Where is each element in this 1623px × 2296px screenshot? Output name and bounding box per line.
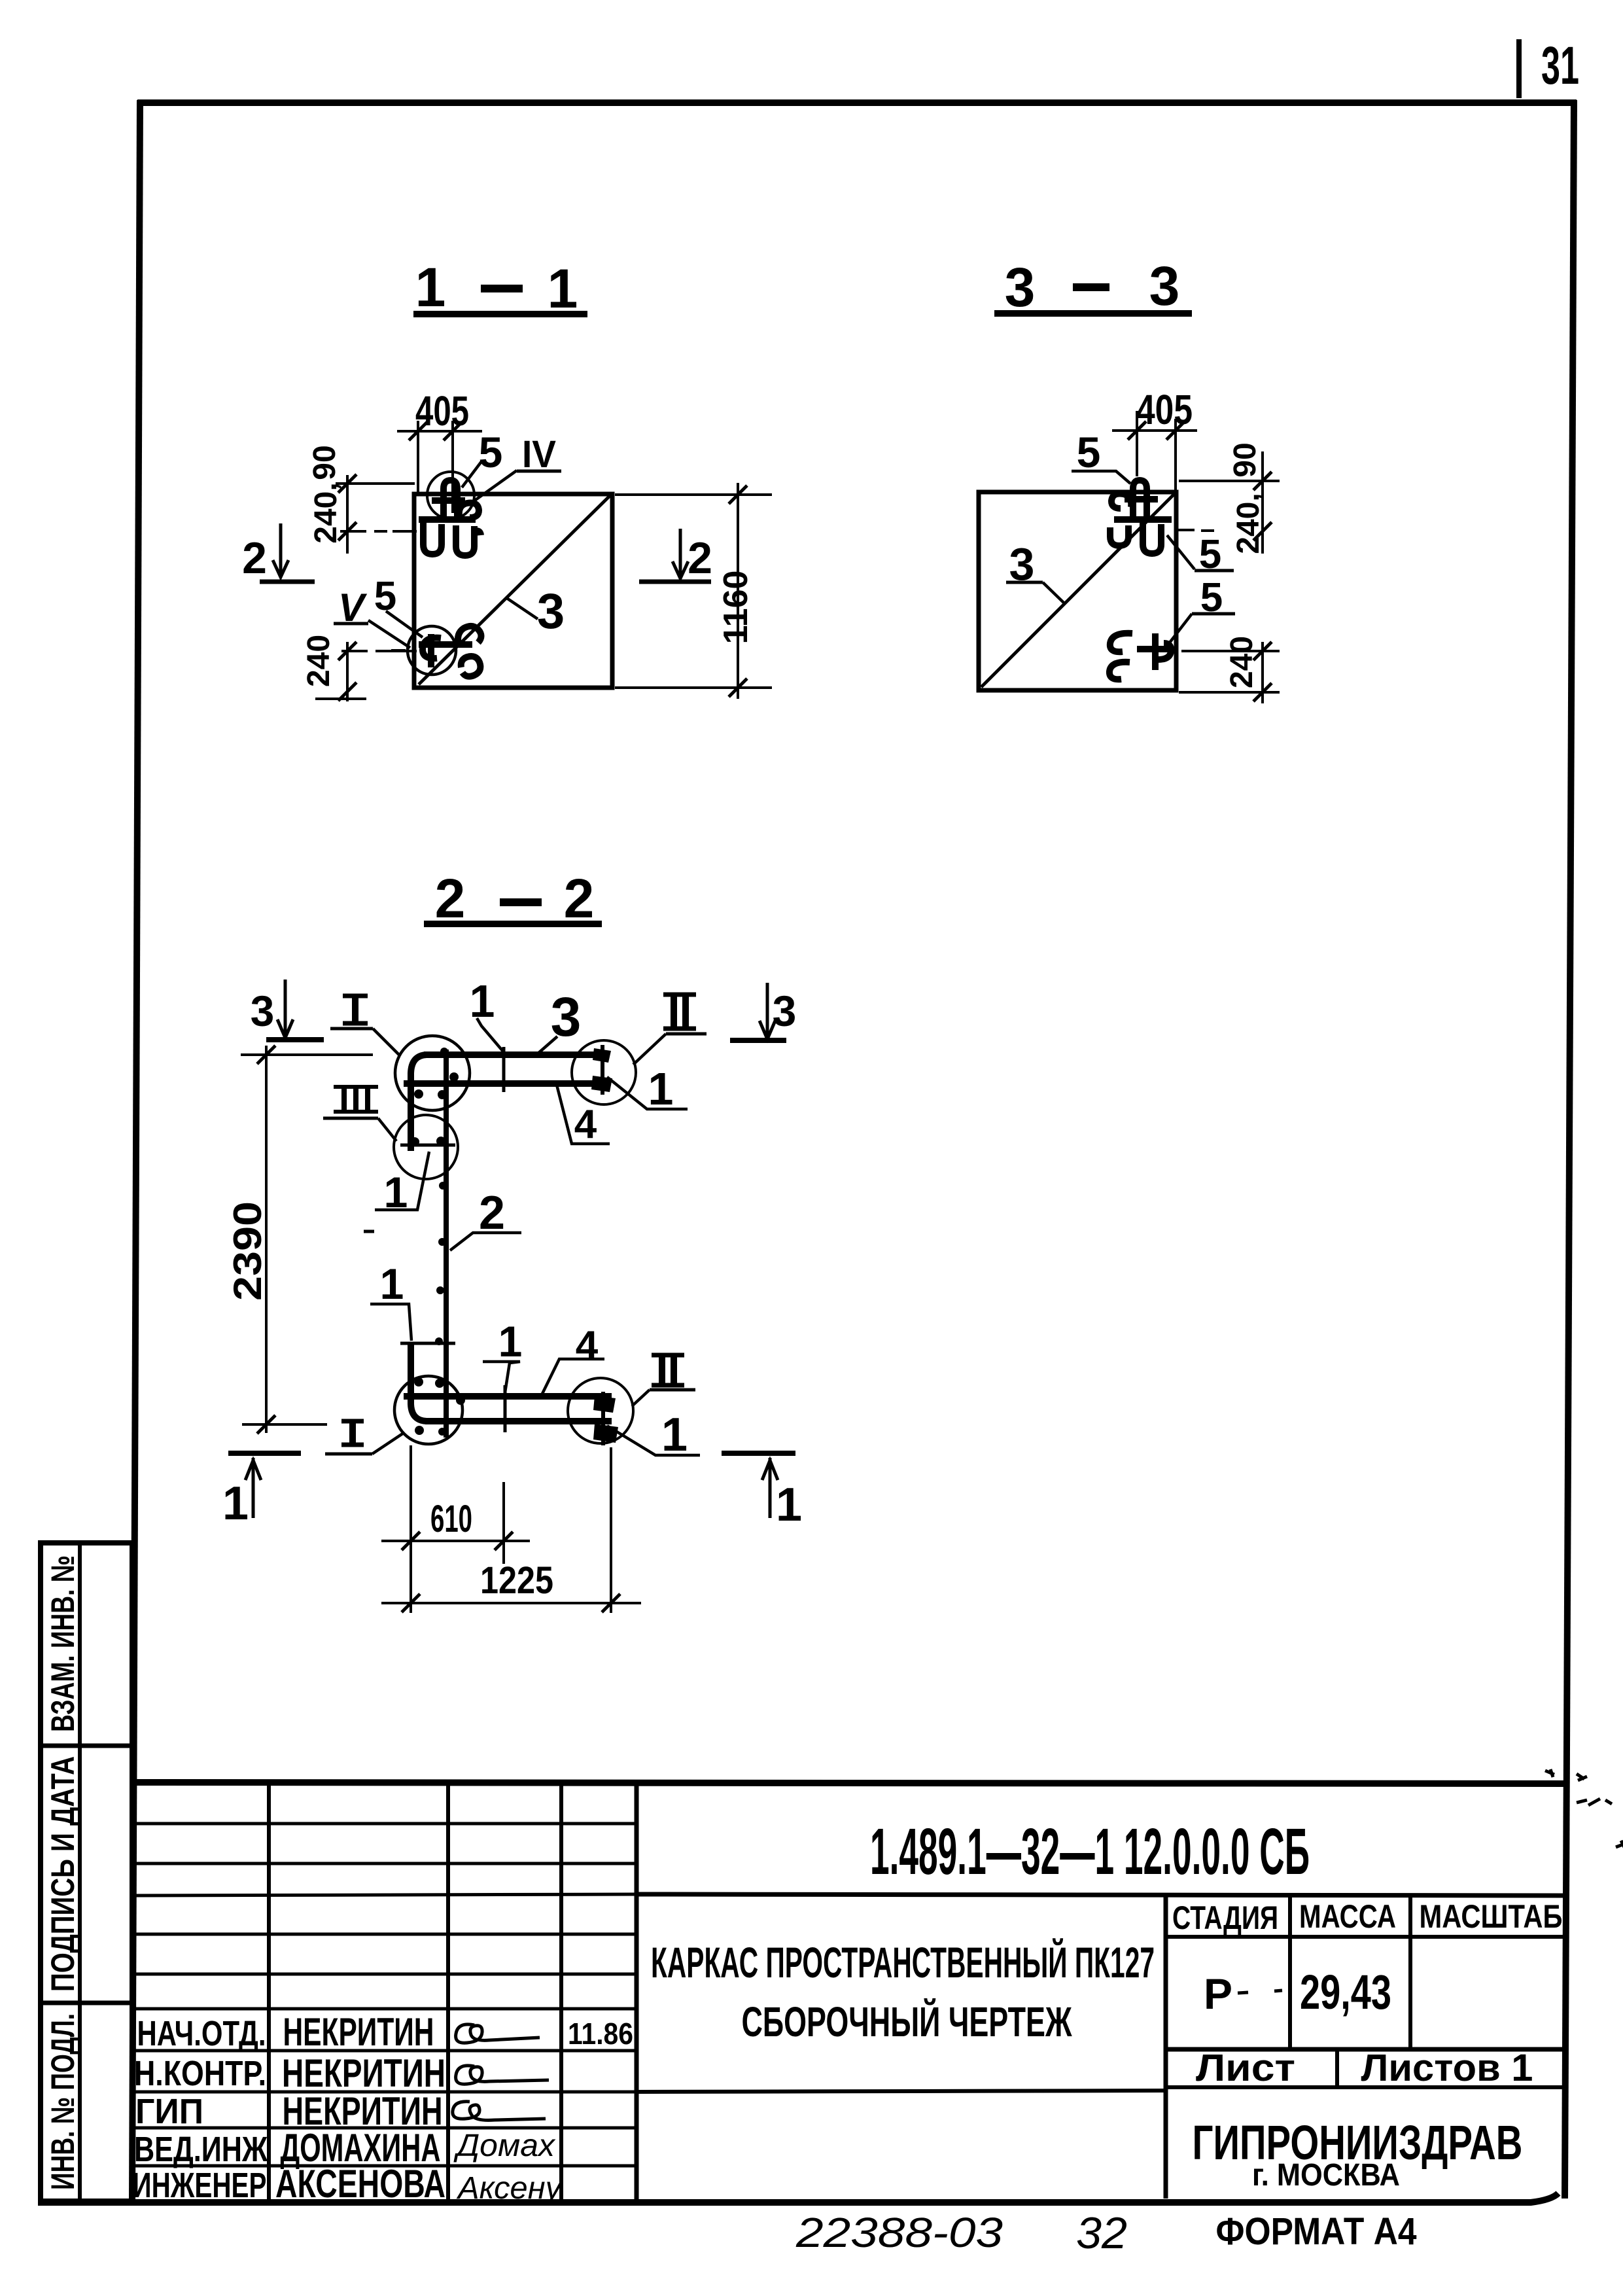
dim 405 line [397, 430, 482, 433]
svg-text:НАЧ.ОТД.: НАЧ.ОТД. [137, 2014, 266, 2053]
svg-text:КАРКАС ПРОСТРАНСТВЕННЫЙ ПК127: КАРКАС ПРОСТРАНСТВЕННЫЙ ПК127 [651, 1937, 1155, 1987]
leader 5 mid [1167, 535, 1195, 569]
svg-text:22388-03: 22388-03 [795, 2209, 1003, 2256]
right dim structure bottom: vertical [1261, 642, 1264, 703]
right dim structure: vertical line [1261, 451, 1264, 554]
svg-text:2: 2 [688, 533, 712, 583]
hook cluster bottom: upper right hook [458, 626, 481, 645]
dim 1225 ticks [402, 1594, 420, 1612]
hook cluster bottom 3-3: right hook [1158, 643, 1171, 660]
tick on top bar mid [502, 1047, 506, 1092]
right tick at 995 [1253, 642, 1272, 660]
section mark 1 bottom left [222, 1453, 301, 1530]
hook cluster bottom 3-3: vertical [1152, 633, 1159, 670]
ink specks near right edge [1545, 1769, 1623, 1848]
right dim line y735 [1179, 480, 1280, 482]
right dim line y995 [1181, 650, 1280, 652]
svg-text:1.489.1—32—1 12.0.0.0 СБ: 1.489.1—32—1 12.0.0.0 СБ [870, 1815, 1310, 1888]
svg-text:Аксену: Аксену [456, 2171, 563, 2206]
label II bottom right [632, 1355, 695, 1406]
hook cluster bottom 3-3: crossbar [1137, 646, 1174, 652]
dim 610 line [381, 1540, 530, 1542]
panel diagonal bar 3 [981, 494, 1174, 687]
panel outline 1-1 [414, 494, 612, 688]
svg-text:1160: 1160 [717, 571, 755, 645]
label 5 mid underline [1195, 569, 1234, 573]
leader 5 near V [386, 611, 423, 637]
svg-text:АКСЕНОВА: АКСЕНОВА [275, 2162, 445, 2206]
left tick at 739 [338, 474, 357, 493]
svg-text:5: 5 [479, 428, 503, 476]
label 4 bottom underline and leader [542, 1359, 604, 1395]
svg-text:4: 4 [576, 1323, 599, 1368]
label 5 low underline [1192, 612, 1235, 616]
left dim structure top: vertical line [346, 475, 349, 554]
svg-text:IV: IV [522, 433, 556, 476]
right tick at 735 [1253, 472, 1272, 490]
svg-text:32: 32 [1076, 2208, 1127, 2258]
svg-text:Листов 1: Листов 1 [1361, 2047, 1533, 2089]
label III [323, 1087, 396, 1141]
svg-text:90: 90 [1228, 442, 1263, 477]
divider under PODPIS box [41, 2001, 132, 2005]
tick on bottom bar right [601, 1392, 605, 1445]
left dim line y739 [336, 482, 415, 485]
svg-text:31: 31 [1541, 36, 1579, 96]
detail circle II bottom [568, 1378, 633, 1443]
section mark 2 left [242, 523, 315, 583]
list row top line [1166, 2047, 1565, 2052]
svg-text:3: 3 [773, 987, 797, 1035]
right dim line y1058 [1179, 691, 1280, 694]
svg-text:НЕКРИТИН: НЕКРИТИН [282, 2051, 445, 2095]
svg-text:4: 4 [574, 1102, 597, 1147]
section title 1-1 [413, 256, 587, 319]
svg-text:1: 1 [380, 1260, 404, 1308]
svg-text:610: 610 [430, 1498, 472, 1540]
svg-text:1: 1 [470, 976, 495, 1027]
leg tick bottom [400, 1342, 455, 1345]
detail circle I bottom [394, 1376, 462, 1444]
tick 1160 bottom [729, 679, 747, 697]
row lines left section [132, 1822, 637, 1826]
svg-text:ВЗАМ. ИНВ. №: ВЗАМ. ИНВ. № [44, 1555, 81, 1732]
label 4 underline and leader [557, 1085, 610, 1144]
hook cluster bottom: crossbar [419, 641, 472, 648]
svg-text:90: 90 [307, 445, 342, 480]
svg-text:405: 405 [415, 387, 469, 434]
hook cluster top 3-3: left lower hook [1110, 525, 1128, 546]
designation cell bottom line [637, 1894, 1565, 1896]
svg-text:НЕКРИТИН: НЕКРИТИН [283, 2010, 434, 2054]
title block top border [132, 1782, 1565, 1784]
left dash-dot axis y812 [340, 530, 417, 533]
bottom bar lower line (bar 3) [425, 1418, 612, 1424]
svg-text:г. МОСКВА: г. МОСКВА [1252, 2158, 1400, 2193]
label I top left [330, 996, 400, 1055]
label IV underline [517, 470, 561, 473]
right tick at 1058 [1253, 683, 1272, 701]
section mark 3 top left [251, 980, 324, 1040]
stadija column left line [1164, 1894, 1168, 2199]
list row bottom line [1166, 2085, 1565, 2089]
hook cluster top 3-3: lower bar [1114, 516, 1172, 523]
dashes after P [1238, 1992, 1248, 1993]
svg-text:Р: Р [1204, 1969, 1232, 2018]
dim 2390 line [265, 1046, 268, 1433]
svg-text:3: 3 [251, 987, 275, 1035]
section title 2-2 [424, 868, 602, 929]
svg-text:3: 3 [1149, 255, 1180, 317]
stadija/massa divider [1288, 1894, 1292, 2049]
svg-text:ИНВ. № ПОДЛ.: ИНВ. № ПОДЛ. [44, 2013, 81, 2190]
label 2 underline and leader [450, 1233, 521, 1250]
leader 3 top [536, 1036, 557, 1055]
detail circle I top [395, 1036, 470, 1110]
hook cluster bottom: vertical [428, 634, 434, 667]
svg-text:МАССА: МАССА [1299, 1898, 1396, 1935]
svg-text:1: 1 [776, 1479, 802, 1531]
label 1 bottom underline and leader [483, 1362, 520, 1392]
dim 2390 bottom extension [242, 1423, 327, 1426]
svg-text:МАСШТАБ: МАСШТАБ [1420, 1898, 1563, 1935]
column line x973 [635, 1782, 639, 2201]
section mark 1 bottom right [722, 1453, 802, 1531]
hook cluster top: left U [423, 523, 442, 554]
dim 1225 line [381, 1602, 641, 1604]
leader IV [474, 470, 517, 501]
svg-text:11.86: 11.86 [568, 2017, 633, 2051]
svg-text:5: 5 [1077, 428, 1101, 476]
svg-text:2: 2 [435, 868, 466, 929]
weld blobs bottom right [593, 1396, 618, 1443]
svg-text:2: 2 [242, 533, 267, 583]
divider under VZAM box [41, 1744, 132, 1748]
bottom bar left bend and leg [411, 1343, 427, 1421]
signature 2 [456, 2066, 549, 2084]
detail circle IV [427, 472, 474, 519]
leader 1 top center [477, 1018, 504, 1052]
sheet number tick [1516, 39, 1522, 98]
svg-text:240,: 240, [1231, 493, 1266, 554]
svg-text:ФОРМАТ А4: ФОРМАТ А4 [1216, 2210, 1417, 2253]
dim 405 ticks [409, 422, 427, 440]
dim 1225 right extension [610, 1447, 612, 1613]
left line y1068 [315, 698, 366, 700]
section mark 3 top right [730, 983, 796, 1040]
svg-text:ПОДПИСЬ И ДАТА: ПОДПИСЬ И ДАТА [44, 1756, 81, 1992]
label I bottom left [325, 1421, 404, 1454]
top bar lower line (bar 4) [404, 1080, 603, 1087]
svg-text:ГИП: ГИП [135, 2092, 203, 2131]
tick on bottom bar mid [504, 1385, 507, 1432]
svg-text:Лист: Лист [1196, 2047, 1295, 2089]
svg-text:29,43: 29,43 [1300, 1965, 1391, 2019]
label 3 underline [1006, 581, 1043, 584]
frame left border [132, 100, 140, 2202]
hook cluster top 3-3: hairpin [1133, 480, 1147, 520]
leader 5 top [462, 461, 482, 487]
frame top border [137, 99, 1577, 106]
bottom bar upper line (bar 4) [404, 1393, 612, 1400]
svg-text:405: 405 [1136, 386, 1193, 433]
detail circle III [394, 1115, 458, 1179]
svg-text:3: 3 [537, 584, 565, 639]
leader 5 low [1170, 614, 1192, 643]
column line x858 [559, 1782, 563, 2201]
left dim structure bottom: vertical line [346, 642, 349, 701]
label 1 right underline and leader [607, 1077, 688, 1109]
leg tick top [400, 1144, 455, 1147]
left tick at 812 [338, 522, 357, 540]
svg-text:Домах: Домах [453, 2128, 556, 2163]
hook cluster top: right hook [459, 503, 479, 518]
label 1 low underline and leader [370, 1304, 411, 1341]
rebar dots top area [410, 1048, 465, 1436]
dashed axis bottom hooks [378, 650, 406, 651]
panel diagonal bar 3 [419, 495, 610, 684]
svg-text:1: 1 [548, 258, 578, 319]
small dash left of bar 2 [364, 1230, 374, 1233]
leader 3 [506, 597, 538, 619]
label V underline [334, 622, 368, 626]
signature 1 [456, 2024, 540, 2043]
section title 3-3 [994, 255, 1192, 318]
svg-text:Н.КОНТР.: Н.КОНТР. [134, 2054, 266, 2093]
svg-text:240: 240 [302, 635, 336, 687]
hook cluster top 3-3: left C hook [1111, 493, 1131, 508]
svg-text:ИНЖЕНЕР: ИНЖЕНЕР [133, 2166, 267, 2205]
dim 405 extension lines [1136, 411, 1138, 476]
tick on top bar right [601, 1045, 604, 1095]
svg-text:1: 1 [498, 1317, 523, 1366]
label II top right [633, 995, 707, 1065]
detail circle V [408, 626, 456, 675]
list/listov divider [1335, 2049, 1339, 2087]
frame bottom border [38, 2193, 1558, 2202]
massa/masshtab divider [1408, 1894, 1412, 2049]
hook cluster top: crossbar [432, 497, 465, 504]
svg-text:ВЕД.ИНЖ: ВЕД.ИНЖ [134, 2130, 268, 2169]
hook cluster top: hairpin [444, 480, 457, 520]
svg-text:2390: 2390 [226, 1201, 270, 1301]
hook cluster bottom 3-3: upper left C [1110, 633, 1132, 652]
section mark 2 right [639, 529, 712, 583]
svg-text:240: 240 [1225, 636, 1259, 688]
dim 610 mid extension [502, 1482, 505, 1564]
hook cluster top 3-3: center U [1143, 523, 1161, 554]
leader V [368, 620, 410, 648]
top bar upper line (bar 3) [424, 1051, 603, 1058]
svg-text:3: 3 [1005, 256, 1036, 318]
dim 405 extension lines [417, 421, 419, 492]
weld blobs top right [591, 1048, 612, 1092]
svg-text:1: 1 [661, 1409, 688, 1461]
label 1 mid underline and leader [375, 1152, 429, 1210]
right tick at 812 [1253, 522, 1272, 540]
dim 2390 top extension [241, 1053, 373, 1056]
right dash-dot axis y812 [1178, 530, 1214, 531]
hook cluster bottom: lower right hook [461, 656, 481, 677]
leader 3 [1043, 582, 1064, 603]
name cell bottom line [637, 2091, 1166, 2092]
panel outline 3-3 [979, 492, 1176, 690]
signature 3 [453, 2102, 546, 2121]
left margin stamp column outline [41, 1543, 132, 2201]
vertical bar 2 [444, 1050, 449, 1438]
svg-text:1: 1 [648, 1063, 674, 1114]
divider between label and blank sub-columns [78, 1543, 82, 2201]
dim 610 ticks [402, 1532, 420, 1550]
column line x411 [267, 1782, 271, 2201]
dim 405 line [1112, 429, 1197, 432]
leader 5 top 3-3 [1072, 471, 1130, 484]
dim 1160 extension bottom [615, 686, 772, 689]
tick 1160 top [729, 486, 747, 504]
dim 1160 line [737, 483, 739, 699]
hook cluster bottom 3-3: lower left C [1109, 662, 1130, 679]
stadija header bottom line [1166, 1935, 1565, 1939]
svg-text:1225: 1225 [480, 1559, 553, 1602]
left tick at 995 [338, 642, 357, 660]
dim 610/1225 left extension [410, 1445, 412, 1613]
frame right border [1565, 100, 1574, 2199]
svg-text:СТАДИЯ: СТАДИЯ [1172, 1899, 1278, 1936]
dim 2390 bottom tick [257, 1415, 275, 1434]
hook cluster top: lower bar [419, 516, 476, 523]
top bar left bend and leg [411, 1055, 427, 1151]
left dim dash line y995 [341, 650, 417, 652]
svg-text:СБОРОЧНЫЙ ЧЕРТЕЖ: СБОРОЧНЫЙ ЧЕРТЕЖ [742, 1998, 1073, 2045]
detail circle II top [572, 1040, 636, 1104]
hook cluster top: right U [456, 525, 481, 556]
label 1 bottom right underline and leader [607, 1426, 700, 1455]
dim 405 ticks [1128, 421, 1146, 440]
dim 1160 extension top [615, 493, 772, 496]
hook cluster bottom: C hook [423, 638, 441, 659]
hook cluster top 3-3: crossbar [1125, 496, 1158, 503]
svg-text:2: 2 [564, 868, 595, 929]
dim 2390 top tick [257, 1046, 275, 1064]
left tick at 1057 [338, 682, 357, 701]
svg-text:1: 1 [415, 256, 446, 318]
svg-text:1: 1 [222, 1477, 249, 1530]
column line x685 [446, 1782, 450, 2201]
